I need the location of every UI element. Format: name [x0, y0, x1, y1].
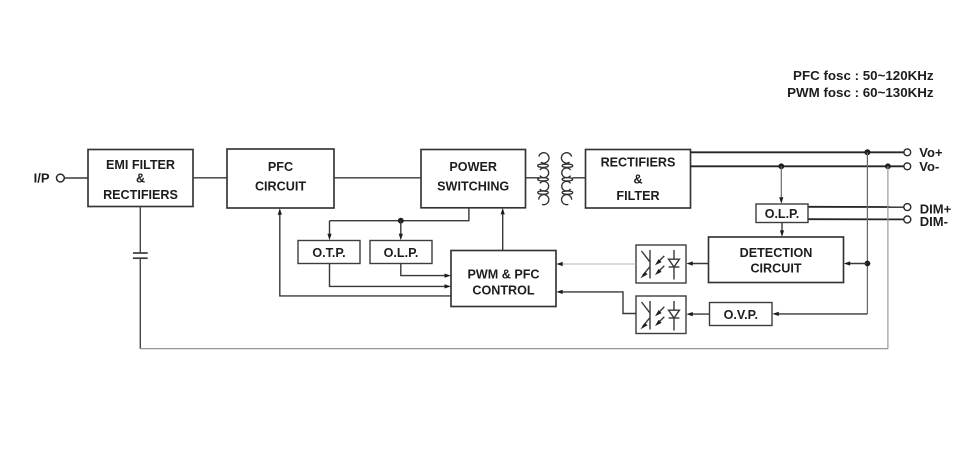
- svg-text:&: &: [136, 172, 145, 186]
- svg-text:SWITCHING: SWITCHING: [437, 180, 509, 194]
- svg-text:PWM fosc : 60~130KHz: PWM fosc : 60~130KHz: [787, 85, 934, 100]
- svg-text:&: &: [633, 172, 642, 186]
- wire capacitor to return line: [139, 259, 141, 349]
- wire junction to DETECTION right: [850, 263, 868, 265]
- wire I/P to EMI filter: [65, 177, 88, 179]
- arrow into O.V.P. right edge: [772, 312, 779, 316]
- optocoupler U2 phototransistor: [642, 301, 651, 330]
- block O.T.P.: [298, 241, 360, 264]
- arrow into PWM left edge upper: [445, 274, 452, 278]
- arrow into optocoupler 1 right edge: [686, 261, 693, 265]
- terminal Vo+ circle: [904, 149, 911, 156]
- optocoupler U1 light arrows: [659, 256, 664, 271]
- wire Vo- return vertical: [887, 166, 889, 348]
- wire sense down to O.V.P.: [778, 313, 868, 315]
- svg-text:POWER: POWER: [449, 160, 497, 174]
- optocoupler U2 LED: [669, 301, 680, 331]
- arrow into POWER SWITCHING bottom: [501, 208, 505, 215]
- wire PFC to POWER SWITCHING: [334, 177, 421, 179]
- block POWER SWITCHING: [421, 150, 526, 208]
- arrow into O.L.P. top: [779, 197, 783, 204]
- node junction above O.L.P.: [398, 218, 404, 224]
- wire Vo+ output line: [691, 151, 904, 153]
- arrow into PWM right edge upper: [556, 262, 563, 266]
- block O.V.P.: [710, 303, 773, 326]
- transformer T1 secondary winding: [561, 153, 572, 205]
- block PWM & PFC CONTROL: [451, 251, 556, 307]
- block RECTIFIERS & FILTER: [586, 150, 691, 209]
- wire DIM- line: [808, 218, 904, 220]
- arrow into DETECTION right edge: [844, 261, 851, 265]
- wire DIM+ line: [808, 206, 904, 208]
- svg-text:O.L.P.: O.L.P.: [384, 246, 419, 260]
- terminal DIM+ circle: [904, 204, 911, 211]
- optocoupler U2 box: [636, 296, 686, 334]
- wire EMI to PFC: [193, 177, 227, 179]
- wire O.V.P. to optocoupler 2: [692, 313, 710, 315]
- wire Vo- output line: [691, 165, 904, 167]
- svg-text:PFC: PFC: [268, 160, 293, 174]
- optocoupler U1 LED: [669, 250, 680, 280]
- arrow into optocoupler 2 right edge: [686, 312, 693, 316]
- svg-text:O.L.P.: O.L.P.: [765, 207, 800, 221]
- wire PWM control to PFC circuit feedback: [280, 213, 451, 296]
- svg-text:O.T.P.: O.T.P.: [312, 246, 345, 260]
- wire POWER SWITCHING to transformer primary: [526, 177, 540, 179]
- svg-text:PFC fosc : 50~120KHz: PFC fosc : 50~120KHz: [793, 68, 934, 83]
- block DETECTION CIRCUIT: [709, 237, 844, 283]
- block O.L.P. primary: [370, 241, 432, 264]
- wire down to O.L.P. primary: [400, 221, 402, 236]
- wire O.L.P. to DETECTION CIRCUIT: [781, 223, 783, 232]
- capacitor C1: [133, 253, 148, 258]
- svg-text:RECTIFIERS: RECTIFIERS: [601, 155, 676, 169]
- block O.L.P. secondary: [756, 204, 808, 223]
- wire DETECTION to optocoupler 1: [692, 263, 709, 265]
- svg-text:FILTER: FILTER: [616, 189, 659, 203]
- svg-text:Vo-: Vo-: [919, 159, 939, 174]
- arrow into O.L.P. primary top: [399, 234, 403, 241]
- arrow into PWM right edge lower: [556, 290, 563, 294]
- svg-text:PWM & PFC: PWM & PFC: [467, 268, 539, 282]
- block PFC CIRCUIT: [227, 149, 334, 208]
- wire optocoupler 2 to PWM control: [562, 292, 637, 314]
- optocoupler U2 light arrows: [659, 307, 664, 322]
- node junction on Vo+ line: [864, 149, 870, 155]
- svg-text:RECTIFIERS: RECTIFIERS: [103, 188, 178, 202]
- terminal I/P circle: [57, 174, 65, 182]
- svg-text:I/P: I/P: [34, 170, 50, 185]
- terminal Vo- circle: [904, 163, 911, 170]
- optocoupler U1 box: [636, 245, 686, 283]
- node junction at detection sense: [865, 261, 871, 267]
- node junction on Vo- line at DIM sense: [778, 163, 784, 169]
- svg-text:EMI FILTER: EMI FILTER: [106, 158, 175, 172]
- wire optocoupler 1 to PWM control (grey): [562, 263, 637, 265]
- node junction on Vo- line at return: [885, 163, 891, 169]
- svg-text:DETECTION: DETECTION: [740, 246, 813, 260]
- wire Vo+ sense vertical: [866, 152, 868, 314]
- svg-text:CIRCUIT: CIRCUIT: [255, 180, 306, 194]
- wire POWER SWITCHING bottom tap: [330, 208, 469, 221]
- block EMI FILTER & RECTIFIERS: [88, 150, 193, 207]
- arrow into DETECTION top: [780, 230, 784, 237]
- svg-text:O.V.P.: O.V.P.: [724, 308, 758, 322]
- wire transformer secondary to RECTIFIERS & FILTER: [573, 177, 586, 179]
- arrow into PWM left edge lower: [445, 284, 452, 288]
- arrow into O.T.P. top: [327, 234, 331, 241]
- svg-text:DIM-: DIM-: [920, 214, 948, 229]
- svg-text:CONTROL: CONTROL: [472, 284, 535, 298]
- wire Vo- to O.L.P. sense: [780, 166, 782, 198]
- transformer T1 primary winding: [538, 153, 549, 205]
- wire O.T.P. to PWM control: [330, 264, 446, 287]
- wire PWM control to POWER SWITCHING: [502, 213, 504, 251]
- wire bottom return line: [140, 348, 888, 350]
- arrow into PFC circuit bottom: [278, 208, 282, 215]
- wire EMI bottom to capacitor: [139, 207, 141, 253]
- terminal DIM- circle: [904, 216, 911, 223]
- optocoupler U1 phototransistor: [642, 250, 651, 279]
- svg-text:Vo+: Vo+: [919, 145, 943, 160]
- wire down to O.T.P.: [329, 221, 331, 236]
- svg-text:CIRCUIT: CIRCUIT: [750, 262, 801, 276]
- wire O.L.P. primary to PWM control: [401, 264, 446, 276]
